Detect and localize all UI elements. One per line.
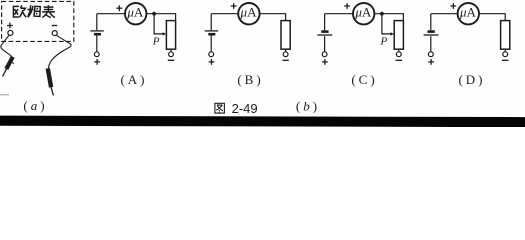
- svg-text:(B): (B): [237, 72, 263, 87]
- svg-text:μA: μA: [240, 4, 258, 19]
- svg-text:P: P: [152, 36, 160, 48]
- svg-text:μA: μA: [126, 4, 144, 19]
- svg-text:μA: μA: [459, 4, 477, 19]
- svg-text:μA: μA: [354, 4, 372, 19]
- svg-text:(D): (D): [458, 72, 485, 87]
- svg-text:2-49: 2-49: [232, 101, 258, 116]
- svg-text:(A): (A): [120, 72, 147, 87]
- svg-text:P: P: [380, 36, 388, 48]
- svg-text:(a): (a): [23, 98, 47, 113]
- svg-text:(b): (b): [296, 99, 320, 114]
- svg-text:(C): (C): [351, 72, 377, 87]
